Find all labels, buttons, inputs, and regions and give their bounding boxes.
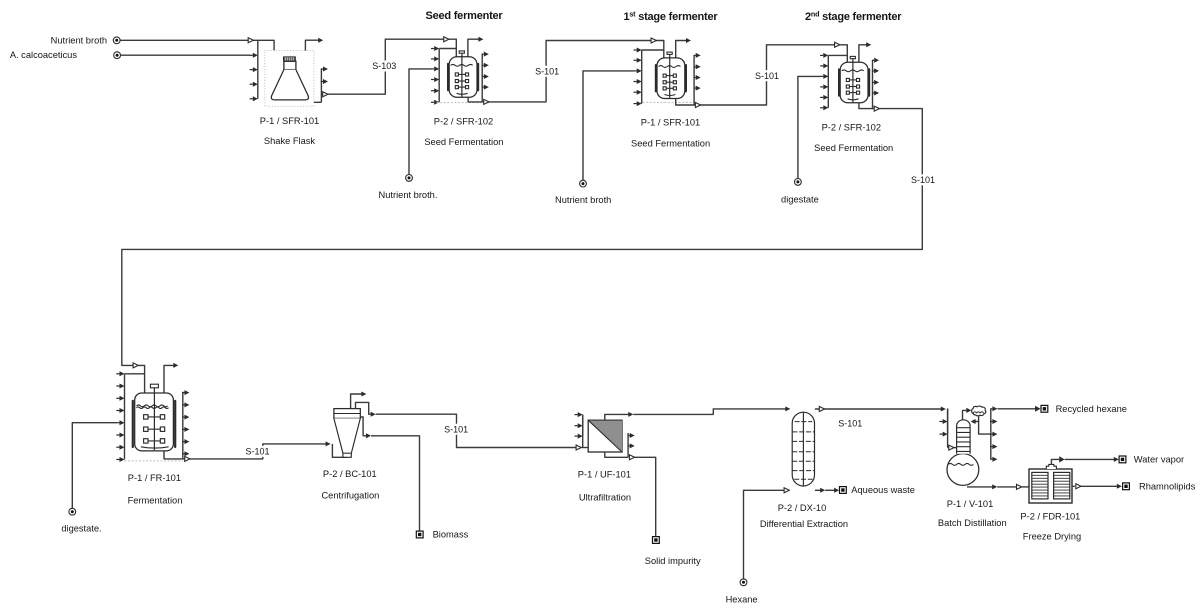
svg-text:P-2 / SFR-102: P-2 / SFR-102	[434, 117, 493, 127]
source: Nutrient broth (below U3)	[580, 180, 587, 187]
svg-text:P-1 / SFR-101: P-1 / SFR-101	[641, 118, 700, 128]
wire: FR bottom outlet	[164, 451, 183, 459]
label: S-101 (to UF)	[441, 424, 471, 435]
svg-text:Solid impurity: Solid impurity	[645, 556, 701, 566]
fermenter vessel U2	[447, 64, 449, 90]
source: Nutrient broth. (below U2)	[406, 175, 413, 182]
svg-text:S-101: S-101	[838, 419, 862, 429]
svg-text:S-101: S-101	[535, 66, 559, 76]
label: S-103	[369, 61, 399, 72]
source: digestate. (bottom left)	[69, 508, 76, 515]
source: digestate (below U4)	[795, 179, 802, 186]
U2 dashed baseline	[437, 102, 490, 104]
U3 dashed baseline	[639, 101, 697, 103]
svg-text:Nutrient broth: Nutrient broth	[51, 35, 107, 45]
fermenter vessel U4	[838, 69, 840, 95]
wire: U3 bottom outlet	[676, 99, 694, 106]
wire: Nutrient broth riser to U3	[583, 71, 634, 180]
UF port bar left	[582, 415, 584, 437]
wire: U3 port-bar top connector	[642, 49, 664, 51]
wire: shake flask bottom outlet	[314, 101, 322, 103]
sink: Aqueous waste	[840, 487, 847, 494]
svg-text:P-2 / DX-10: P-2 / DX-10	[778, 503, 827, 513]
svg-text:P-2 / FDR-101: P-2 / FDR-101	[1020, 511, 1080, 521]
wire: UF permeate to differential extraction	[633, 409, 786, 415]
ultrafiltration icon UF-101	[588, 420, 622, 452]
svg-text:P-1 / UF-101: P-1 / UF-101	[578, 469, 631, 479]
U4 port bar right	[872, 60, 874, 108]
wire: digestate. riser to FR	[72, 423, 116, 509]
wire: Nutrient broth feed to shake flask	[120, 40, 274, 50]
wire: V-101 vapor line to condenser	[963, 410, 967, 420]
label: S-101 (U2-U3)	[532, 66, 562, 77]
wire: Nutrient broth. riser to U2	[409, 69, 431, 174]
source: Nutrient broth (top)	[113, 37, 120, 44]
wire: V-101 feed into still pot	[948, 447, 957, 449]
source: A. calcoaceticus	[114, 52, 121, 59]
FR dashed baseline	[125, 460, 184, 462]
svg-text:S-101: S-101	[911, 175, 935, 185]
svg-text:1st stage fermenter: 1st stage fermenter	[624, 10, 719, 24]
svg-text:S-101: S-101	[444, 424, 468, 434]
wire: DX bottom outlet to aqueous waste	[815, 489, 821, 491]
wire: centrifuge vent	[351, 394, 362, 409]
U2 port bar right	[481, 54, 483, 102]
wire: stream S-101 FR to centrifugation	[183, 444, 326, 459]
svg-text:digestate.: digestate.	[61, 524, 101, 534]
label: S-101 (FR outlet)	[243, 446, 273, 457]
sink: Rhamnolipids	[1123, 483, 1130, 490]
wire: centrifuge lower outlet to biomass	[360, 417, 366, 436]
wire: stream S-101 U3 to U4	[694, 45, 847, 105]
svg-text:Batch Distillation: Batch Distillation	[938, 518, 1007, 528]
fermentation vessel FR-101	[132, 401, 134, 447]
label: S-101 (right riser)	[908, 174, 938, 185]
wire: FR port-bar top connector	[125, 373, 145, 375]
svg-text:digestate: digestate	[781, 195, 819, 205]
wire: stream S-101 U4 to fermentation (long route)	[122, 109, 923, 393]
svg-text:Seed Fermentation: Seed Fermentation	[424, 137, 503, 147]
U3 port bar left	[641, 50, 643, 104]
shake flask icon U1 (Erlenmeyer flask)	[283, 57, 295, 62]
wire: U4 bottom outlet	[859, 103, 873, 109]
svg-text:P-1 / SFR-101: P-1 / SFR-101	[260, 116, 319, 126]
svg-text:Centrifugation: Centrifugation	[321, 491, 379, 501]
V-101 port bar right	[990, 409, 992, 459]
shake flask port bar right	[320, 69, 322, 102]
U3 port bar right	[693, 55, 695, 105]
wire: U2 bottom outlet	[468, 97, 482, 102]
wire: U2 port-bar top connector	[439, 48, 456, 50]
wire: FR vent	[164, 365, 174, 392]
svg-text:Freeze Drying: Freeze Drying	[1023, 531, 1081, 541]
wire: stream S-101 centrifuge to ultrafiltration	[376, 414, 576, 447]
svg-text:A. calcoaceticus: A. calcoaceticus	[10, 50, 78, 60]
wire: UF bottom outlet to solid impurity	[605, 452, 628, 457]
svg-text:Biomass: Biomass	[433, 530, 469, 540]
wire: A. calcoaceticus feed line	[121, 54, 250, 56]
sink: Solid impurity	[653, 537, 660, 544]
wire: rhamnolipids product line	[1072, 485, 1075, 487]
wire: V-101 bottoms to freeze drying	[967, 486, 993, 488]
FR port bar left	[124, 374, 126, 460]
U4 port bar left	[827, 55, 829, 107]
wire: centrifuge top outlet (S-101)	[356, 402, 372, 414]
svg-text:P-2 / SFR-102: P-2 / SFR-102	[822, 123, 881, 133]
V-101 port bar left	[947, 409, 949, 435]
svg-text:Nutrient broth: Nutrient broth	[555, 195, 611, 205]
UF port bar right	[627, 433, 629, 457]
svg-text:S-101: S-101	[755, 71, 779, 81]
condenser cloud	[972, 406, 986, 416]
svg-text:S-103: S-103	[372, 61, 396, 71]
wire: UF top outlet	[605, 414, 629, 420]
fermenter vessel U3	[655, 65, 657, 91]
U2 port bar left	[438, 49, 440, 103]
wire: stream S-103 shake flask to seed fermenter	[321, 39, 456, 94]
label: S-101 (U3-U4)	[752, 70, 782, 81]
wire: recycled hexane line	[997, 408, 1035, 410]
svg-text:Water vapor: Water vapor	[1134, 455, 1184, 465]
wire: shake flask vent	[305, 40, 318, 50]
wire: digestate riser to U4	[798, 76, 820, 178]
svg-text:S-101: S-101	[245, 447, 269, 457]
wire: U2 vent	[468, 39, 479, 57]
svg-text:Recycled hexane: Recycled hexane	[1056, 404, 1127, 414]
svg-text:P-1 / V-101: P-1 / V-101	[947, 499, 994, 509]
svg-text:Seed Fermentation: Seed Fermentation	[814, 143, 893, 153]
sink: Biomass	[416, 531, 423, 538]
FR port bar right	[182, 392, 184, 459]
extraction column icon DX-10	[792, 412, 814, 486]
wire: DX top outlet (S-101 to batch distillation)	[815, 408, 941, 410]
svg-text:Rhamnolipids: Rhamnolipids	[1139, 482, 1196, 492]
shake flask port bar left	[257, 40, 259, 99]
source: Hexane	[740, 579, 747, 586]
wire: U4 port-bar top connector	[828, 54, 847, 56]
wire: water vapor line	[1051, 459, 1059, 464]
svg-text:Seed fermenter: Seed fermenter	[425, 10, 503, 22]
svg-text:Aqueous waste: Aqueous waste	[851, 485, 915, 495]
svg-text:Fermentation: Fermentation	[128, 495, 183, 505]
svg-text:Hexane: Hexane	[726, 595, 758, 605]
sink: Water vapor	[1119, 456, 1126, 463]
wire: U4 vent	[859, 45, 867, 63]
svg-text:Differential Extraction: Differential Extraction	[760, 519, 848, 529]
wire: Hexane riser to DX	[744, 490, 785, 579]
wire: condenser distillate to port bar	[979, 422, 991, 435]
wire: U3 vent	[676, 41, 687, 59]
svg-text:2nd stage fermenter: 2nd stage fermenter	[805, 10, 902, 24]
svg-text:P-2 / BC-101: P-2 / BC-101	[323, 469, 377, 479]
svg-text:Nutrient broth.: Nutrient broth.	[379, 190, 438, 200]
svg-text:Ultrafiltration: Ultrafiltration	[579, 492, 631, 502]
wire: condenser reflux return	[975, 415, 979, 421]
shake flask dotted selection box	[265, 51, 314, 107]
svg-text:P-1 / FR-101: P-1 / FR-101	[128, 473, 181, 483]
wire: stream S-101 U2 to U3	[482, 41, 664, 102]
centrifuge icon BC-101	[334, 409, 360, 419]
svg-text:Seed Fermentation: Seed Fermentation	[631, 138, 710, 148]
sink: Recycled hexane	[1041, 405, 1048, 412]
svg-text:Shake Flask: Shake Flask	[264, 136, 316, 146]
freeze dryer icon FDR-101	[1029, 469, 1072, 503]
batch distillation icon V-101 (still pot + column + condenser)	[947, 454, 979, 486]
